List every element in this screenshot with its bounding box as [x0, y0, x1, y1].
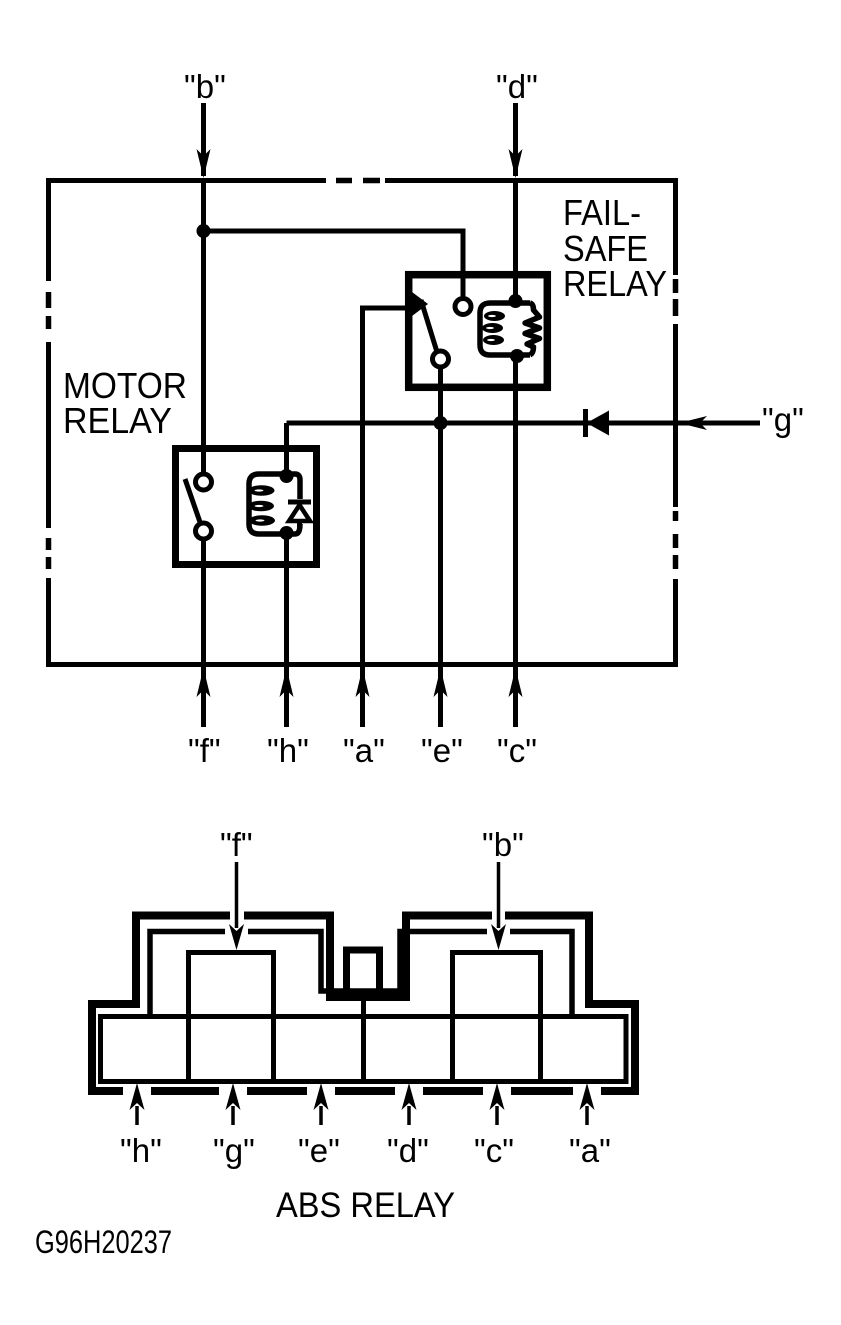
svg-text:"e": "e" [421, 732, 463, 769]
svg-text:"g": "g" [213, 1132, 255, 1169]
svg-text:"e": "e" [298, 1132, 340, 1169]
svg-text:RELAY: RELAY [63, 400, 172, 441]
svg-text:"d": "d" [496, 68, 538, 105]
svg-text:"c": "c" [474, 1132, 514, 1169]
svg-text:G96H20237: G96H20237 [35, 1224, 172, 1260]
svg-text:FAIL-: FAIL- [563, 192, 641, 233]
svg-text:"c": "c" [497, 732, 537, 769]
svg-text:ABS RELAY: ABS RELAY [276, 1186, 455, 1225]
svg-text:"h": "h" [267, 732, 309, 769]
svg-text:"b": "b" [184, 68, 226, 105]
svg-text:"b": "b" [482, 826, 524, 863]
svg-text:"a": "a" [343, 732, 385, 769]
svg-text:"f": "f" [220, 826, 253, 863]
svg-text:"d": "d" [387, 1132, 429, 1169]
svg-text:"f": "f" [188, 732, 221, 769]
svg-text:RELAY: RELAY [563, 263, 667, 304]
svg-text:"g": "g" [762, 401, 804, 438]
svg-text:"a": "a" [569, 1132, 611, 1169]
svg-text:"h": "h" [120, 1132, 162, 1169]
